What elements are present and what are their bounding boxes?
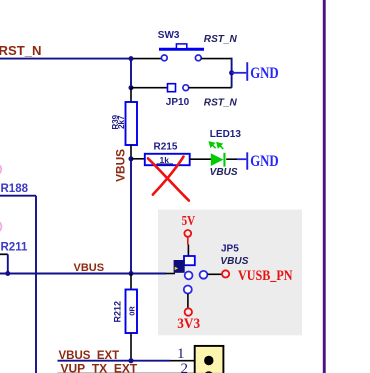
wire vertical RST_N column: [130, 59, 132, 88]
wire pin JP5 pin3: [187, 294, 189, 308]
svg-text:R188: R188: [1, 183, 29, 195]
resistor R212: [113, 274, 138, 334]
crossed-out fragment (magenta, left edge lower): [0, 223, 1, 231]
wire R188 horizontal: [0, 195, 36, 197]
wire RST_N horizontal: [0, 58, 131, 60]
svg-text:R215: R215: [154, 141, 178, 152]
node junction VBUS_EXT: [128, 358, 133, 363]
wire pin R39 bottom: [130, 145, 132, 159]
svg-text:5V: 5V: [182, 214, 196, 229]
node junction VBUS/R212: [129, 271, 134, 276]
svg-text:2k7: 2k7: [117, 115, 126, 129]
svg-text:JP10: JP10: [166, 97, 190, 108]
wire R211 vertical: [7, 254, 9, 273]
wire pin JP5 pin1: [187, 245, 189, 257]
port VUSB_PN: [222, 268, 293, 284]
svg-text:3V3: 3V3: [177, 316, 200, 332]
jumper JP5: [174, 256, 208, 294]
svg-text:VUSB_PN: VUSB_PN: [238, 268, 293, 284]
wire pin R39 top: [130, 88, 132, 102]
wire R211 horizontal: [0, 253, 8, 255]
LED LED13: [210, 142, 226, 166]
svg-text:0R: 0R: [128, 306, 137, 316]
svg-text:GND: GND: [250, 153, 279, 170]
wire pin into JP5: [166, 273, 175, 275]
wire JP10 pin2 to GND column: [189, 87, 232, 89]
sheet border (purple vertical line): [323, 0, 326, 373]
svg-text:JP5: JP5: [221, 243, 239, 254]
wire pin to R215: [131, 158, 145, 160]
wire SW3 pin2: [201, 58, 231, 60]
power port GND (at LED13): [246, 152, 278, 170]
wire JP5 pin2 to port: [208, 273, 222, 275]
resistor R39: [111, 102, 137, 145]
wire GND stub (port stem): [232, 72, 247, 74]
node junction GND stub: [229, 70, 234, 75]
wire pin P1-1: [170, 360, 195, 362]
node junction at JP10 row: [129, 85, 134, 90]
node junction R211/VBUS: [5, 271, 10, 276]
wire R188 vertical: [35, 196, 37, 373]
node junction at RST_N / SW3 column: [129, 56, 134, 61]
svg-text:R211: R211: [1, 241, 28, 253]
wire pin to JP10 pad: [131, 87, 168, 89]
jumper JP10: [168, 84, 189, 92]
wire vertical VBUS column: [130, 159, 132, 274]
wire R215 to LED13: [190, 158, 212, 160]
power port 3V3: [177, 308, 200, 332]
power port GND (top): [246, 62, 278, 82]
svg-text:RST_N: RST_N: [204, 97, 238, 108]
svg-text:LED13: LED13: [210, 129, 242, 140]
wire GND stem at LED: [237, 158, 246, 160]
svg-text:VBUS: VBUS: [210, 167, 238, 178]
svg-text:VBUS: VBUS: [115, 149, 127, 182]
crossed-out fragment (magenta, left edge upper): [0, 166, 1, 173]
switch SW3: [159, 44, 204, 61]
wire pin R212 bottom: [130, 333, 132, 361]
wire VBUS_EXT: [58, 360, 171, 362]
wire vertical to GND junction: [231, 58, 233, 88]
no-fit cross over R215: [148, 157, 189, 201]
wire VBUS horizontal: [0, 273, 166, 275]
wire LED cathode pin: [226, 158, 237, 160]
svg-text:VBUS: VBUS: [74, 262, 105, 274]
wire pin to SW3 pin1: [131, 58, 162, 60]
grey highlight box around JP5: [158, 210, 302, 336]
svg-text:R212: R212: [113, 301, 123, 323]
svg-text:1: 1: [177, 346, 185, 362]
svg-text:RST_N: RST_N: [204, 34, 238, 45]
svg-text:VBUS: VBUS: [220, 256, 248, 267]
connector P (yellow): [195, 346, 224, 373]
svg-text:RST_N: RST_N: [0, 43, 42, 58]
svg-text:VUP_TX_EXT: VUP_TX_EXT: [61, 362, 138, 373]
svg-text:2: 2: [181, 361, 189, 373]
resistor R215: [145, 141, 190, 165]
svg-text:SW3: SW3: [158, 30, 180, 41]
svg-text:GND: GND: [250, 65, 279, 82]
power port 5V: [182, 214, 196, 245]
node junction at R215 row: [129, 156, 134, 161]
